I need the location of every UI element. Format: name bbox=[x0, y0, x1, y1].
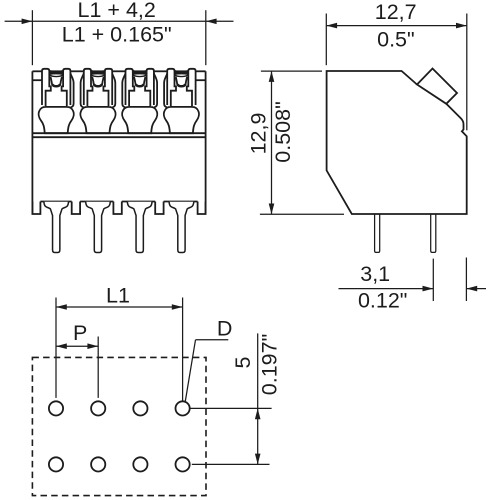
front solder pin 3 bbox=[127, 202, 152, 253]
label D leader line bbox=[185, 340, 195, 402]
dimension 3.1 arrow left bbox=[423, 286, 434, 292]
front housing ledge line right end bbox=[196, 79, 206, 81]
footprint hole row 2 col 3 bbox=[133, 457, 147, 471]
svg-text:12,9: 12,9 bbox=[247, 113, 271, 155]
dimension 5 arrow bottom bbox=[255, 454, 261, 465]
footprint hole row 1 col 2 bbox=[91, 401, 105, 415]
label D underline bbox=[196, 339, 229, 341]
slot between clamp 2 and clamp 3 bbox=[112, 73, 126, 107]
svg-text:0.5": 0.5" bbox=[377, 27, 415, 51]
front solder pin 4 bbox=[169, 202, 194, 253]
dimension 12.9 extension line top bbox=[261, 70, 322, 72]
front solder pin 1 bbox=[44, 202, 69, 253]
side view pin left bbox=[375, 214, 380, 252]
front view housing left edge bbox=[31, 71, 33, 214]
slot between clamp 1 and clamp 2 bbox=[70, 73, 84, 107]
footprint dashed outline bbox=[32, 357, 206, 495]
svg-text:L1 + 0.165": L1 + 0.165" bbox=[62, 23, 172, 47]
clamp unit 1 bbox=[39, 69, 74, 133]
side view body outline bbox=[327, 71, 467, 214]
front solder pin 2 bbox=[86, 202, 111, 253]
dimension 5 line bbox=[257, 333, 259, 464]
dimension 12.7 extension line left bbox=[325, 14, 327, 66]
dimension 12.9 arrow top bbox=[269, 71, 275, 82]
dimension 12.9 arrow bottom bbox=[269, 204, 275, 215]
front housing band line upper bbox=[32, 132, 205, 134]
footprint hole row 1 col 1 bbox=[49, 401, 63, 415]
dimension 12.7 extension line right bbox=[466, 14, 468, 131]
dimension P line bbox=[56, 345, 98, 347]
front housing bottom tab 4 bbox=[155, 202, 163, 215]
clamp unit 4 bbox=[164, 69, 199, 133]
footprint hole row 1 col 3 bbox=[133, 401, 147, 415]
side view pin right bbox=[431, 214, 436, 252]
clamp unit 3 bbox=[122, 69, 157, 133]
side view actuation button bbox=[417, 69, 457, 104]
front housing bottom tab 5 bbox=[198, 202, 206, 215]
front housing bottom tab 2 bbox=[72, 202, 80, 215]
svg-text:L1: L1 bbox=[106, 284, 130, 308]
dimension L1+4.2 arrow left bbox=[22, 19, 33, 25]
front housing top edge over clamp 1 bbox=[49, 70, 63, 72]
dimension L1+4.2 extension line left bbox=[31, 10, 33, 65]
dimension P extension line right bbox=[97, 337, 99, 398]
front housing bottom edge segment 4 bbox=[164, 201, 198, 203]
front housing top edge segment 3 bbox=[112, 70, 125, 72]
clamp unit 2 bbox=[80, 69, 115, 133]
front housing top edge segment 2 bbox=[70, 70, 83, 72]
dimension L1 arrow left bbox=[56, 304, 67, 310]
front housing top edge over clamp 4 bbox=[175, 70, 189, 72]
front view housing right edge bbox=[205, 71, 207, 214]
footprint hole row 2 col 4 bbox=[176, 457, 190, 471]
slot between clamp 3 and clamp 4 bbox=[154, 73, 168, 107]
dimension L1 extension line right bbox=[182, 298, 184, 402]
front housing bottom edge segment 2 bbox=[80, 201, 113, 203]
front housing bottom edge segment 1 bbox=[40, 201, 71, 203]
svg-text:D: D bbox=[217, 317, 233, 341]
dimension 12.9 extension line bottom bbox=[260, 213, 344, 215]
front housing top edge over clamp 3 bbox=[133, 70, 147, 72]
dimension P arrow right bbox=[87, 343, 98, 349]
dimension L1+4.2 extension line right bbox=[205, 10, 207, 65]
dimension 12.7 arrow left bbox=[326, 23, 337, 29]
dimension 3.1 extension line pin bbox=[432, 259, 434, 301]
footprint hole row 2 col 2 bbox=[91, 457, 105, 471]
dimension 5 extension line row2 bbox=[192, 463, 270, 465]
svg-text:P: P bbox=[73, 321, 87, 345]
front housing bottom tab 3 bbox=[113, 202, 121, 215]
dimension L1 line bbox=[56, 306, 183, 308]
dimension 12.7 line bbox=[326, 25, 467, 27]
dimension 3.1 extension line edge bbox=[465, 258, 467, 302]
svg-text:0.12": 0.12" bbox=[358, 288, 407, 312]
dimension P arrow left bbox=[56, 343, 67, 349]
front housing top edge segment 4 bbox=[154, 70, 167, 72]
svg-text:5: 5 bbox=[231, 356, 255, 368]
dimension L1 extension line left bbox=[55, 298, 57, 398]
dimension 5 extension line row1 bbox=[190, 407, 271, 409]
front housing top edge segment 5 bbox=[196, 70, 206, 72]
front housing top edge over clamp 2 bbox=[91, 70, 105, 72]
footprint hole row 1 col 4 bbox=[176, 401, 190, 415]
svg-text:0.197": 0.197" bbox=[257, 334, 281, 395]
svg-text:3,1: 3,1 bbox=[360, 262, 390, 286]
svg-text:0.508": 0.508" bbox=[271, 101, 295, 162]
dimension L1 arrow right bbox=[172, 304, 183, 310]
dimension 3.1 line left bbox=[339, 288, 434, 290]
svg-text:12,7: 12,7 bbox=[375, 0, 417, 24]
dimension L1+4.2 line bbox=[5, 20, 234, 22]
dimension 5 arrow top bbox=[255, 408, 261, 419]
dimension 12.9 line bbox=[271, 71, 273, 214]
dimension 3.1 arrow right bbox=[466, 286, 477, 292]
front housing bottom edge segment 3 bbox=[122, 201, 155, 203]
dimension 12.7 arrow right bbox=[456, 23, 467, 29]
front housing band line lower bbox=[32, 136, 205, 138]
footprint hole row 2 col 1 bbox=[49, 457, 63, 471]
front housing top edge segment 1 bbox=[32, 70, 42, 72]
front housing bottom tab 1 bbox=[32, 202, 40, 215]
front housing ledge line left end bbox=[32, 79, 42, 81]
dimension L1+4.2 arrow right bbox=[206, 19, 217, 25]
svg-text:L1 + 4,2: L1 + 4,2 bbox=[78, 0, 156, 22]
dimension 3.1 line right bbox=[466, 288, 486, 290]
